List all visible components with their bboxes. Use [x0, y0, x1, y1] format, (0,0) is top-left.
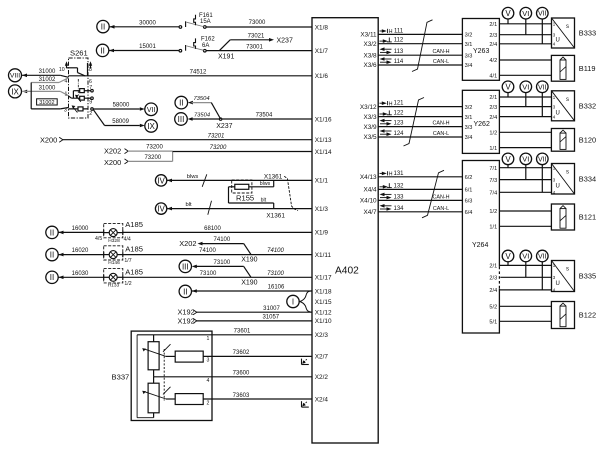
svg-text:A185: A185 — [125, 220, 143, 229]
svg-text:73600: 73600 — [233, 371, 250, 377]
svg-text:X1/1: X1/1 — [315, 178, 329, 185]
wire 73504 to X1/16 — [222, 113, 312, 119]
wire 73000 to X1/8 — [206, 20, 312, 27]
ground symbol at X2/7 — [302, 359, 309, 365]
svg-text:VI: VI — [522, 82, 529, 91]
svg-text:Y263: Y263 — [473, 48, 489, 55]
wire 58009 to IX — [93, 109, 145, 127]
wire 124 CAN-L group 2 — [378, 129, 462, 137]
svg-text:2/4: 2/4 — [489, 42, 497, 48]
node II (circle) row X1/18 — [179, 285, 197, 297]
wire blt branch to R155 — [229, 187, 274, 209]
svg-text:7/1: 7/1 — [489, 166, 497, 172]
B337 resistor lower — [166, 394, 203, 405]
wires Y to probe B121 — [499, 211, 551, 226]
svg-text:X1/8: X1/8 — [315, 24, 329, 31]
wire 31000 to VIII — [22, 69, 69, 77]
svg-text:U: U — [556, 38, 560, 44]
svg-text:X1361: X1361 — [266, 212, 285, 219]
B337 internal bus — [137, 335, 154, 418]
svg-text:X2/7: X2/7 — [315, 354, 329, 361]
svg-text:6: 6 — [89, 79, 92, 85]
Y262 right pin labels — [489, 95, 497, 152]
node X200 half-connector lower — [104, 158, 128, 167]
wire 122 group 2 — [378, 110, 462, 116]
cable marker group 3 — [422, 170, 444, 218]
node V VI VII circles group 2 — [502, 81, 548, 93]
resistor R155 element — [235, 184, 249, 189]
node V VI VII circles group 1 — [502, 7, 548, 19]
wire 131 group 3 — [378, 171, 462, 178]
svg-text:73021: 73021 — [248, 33, 265, 39]
svg-text:CAN-H: CAN-H — [432, 121, 449, 127]
svg-text:B119: B119 — [579, 64, 596, 73]
svg-text:VII: VII — [147, 107, 156, 114]
svg-text:X4/10: X4/10 — [360, 198, 377, 205]
svg-text:B334: B334 — [579, 174, 596, 183]
svg-text:X1/13: X1/13 — [315, 137, 332, 144]
svg-text:X1/14: X1/14 — [315, 149, 332, 156]
svg-text:74100: 74100 — [214, 237, 231, 243]
S261 pin 10 with up arrow — [59, 61, 78, 73]
wire Y pin to B334 pin 4 with node stub — [499, 165, 551, 193]
Y262 left pin labels — [465, 105, 473, 141]
svg-text:s: s — [566, 24, 569, 30]
svg-text:73602: 73602 — [233, 350, 250, 356]
svg-text:U: U — [556, 281, 560, 287]
svg-text:73200: 73200 — [210, 145, 227, 151]
svg-text:CAN-L: CAN-L — [433, 131, 449, 137]
svg-text:31000: 31000 — [39, 69, 56, 75]
node VII (circle) — [145, 103, 158, 116]
fuse F161 15A — [179, 13, 213, 29]
S261 switch blade — [78, 73, 86, 76]
wire junction bracket — [172, 151, 174, 161]
svg-text:CAN-H: CAN-H — [432, 49, 449, 55]
node V VI VII circles group 4 — [502, 250, 548, 262]
node X192 half-connector upper — [178, 308, 197, 317]
svg-text:2/4: 2/4 — [489, 115, 497, 121]
S261 mechanical link dash-dot — [77, 79, 79, 96]
svg-text:31002: 31002 — [39, 77, 56, 83]
connector X1361 cable marker — [284, 176, 298, 210]
svg-text:X202: X202 — [104, 147, 121, 156]
svg-text:A185: A185 — [125, 244, 143, 253]
svg-text:X200: X200 — [104, 158, 121, 167]
svg-text:H: H — [389, 172, 393, 178]
wire 112 group 1 — [378, 38, 462, 44]
svg-text:132: 132 — [393, 183, 404, 189]
svg-text:4/1: 4/1 — [489, 74, 497, 80]
svg-text:IX: IX — [11, 87, 19, 96]
svg-text:73200: 73200 — [144, 155, 161, 161]
svg-text:2/4: 2/4 — [489, 288, 497, 294]
svg-text:5/1: 5/1 — [489, 320, 497, 326]
svg-text:X3/9: X3/9 — [363, 124, 377, 131]
svg-text:II: II — [50, 228, 54, 237]
svg-text:58000: 58000 — [113, 103, 130, 109]
wire blt to X1/3 — [167, 202, 312, 208]
wire blws to X1/1 — [167, 174, 312, 180]
wire 73201 to X1/13 — [63, 133, 312, 139]
svg-text:2: 2 — [89, 111, 92, 117]
svg-text:V: V — [505, 9, 511, 18]
svg-text:V: V — [505, 252, 511, 261]
node VIII (circle) — [9, 69, 28, 82]
wire Y pin to B334 pin 1 with node stub — [499, 165, 551, 168]
svg-text:8: 8 — [89, 67, 92, 73]
svg-text:X3/8: X3/8 — [363, 52, 377, 59]
wire 73200 to X1/14 — [173, 145, 312, 151]
wire slash marker lower — [208, 201, 212, 215]
A402 left pin labels — [315, 24, 332, 403]
svg-text:1/7: 1/7 — [124, 258, 131, 264]
svg-text:II: II — [179, 98, 183, 107]
svg-text:A402: A402 — [335, 266, 359, 277]
svg-text:3/1: 3/1 — [465, 42, 473, 48]
svg-text:Y262: Y262 — [474, 121, 490, 128]
svg-text:3/4: 3/4 — [465, 135, 473, 141]
wire 16106 to X1/18 — [192, 285, 312, 291]
B337 wiper link dash — [163, 349, 165, 401]
svg-text:73100: 73100 — [200, 271, 217, 277]
svg-text:X3/5: X3/5 — [363, 134, 377, 141]
svg-text:blt: blt — [261, 198, 267, 204]
wire 73504 segment to III — [191, 113, 219, 119]
wire 30000 — [110, 20, 180, 27]
svg-text:F162: F162 — [201, 37, 215, 43]
svg-text:V: V — [505, 83, 511, 92]
svg-text:X2/3: X2/3 — [315, 332, 329, 339]
svg-text:73200: 73200 — [146, 145, 163, 151]
svg-text:B335: B335 — [579, 272, 596, 281]
svg-text:16030: 16030 — [72, 271, 89, 277]
svg-text:CAN-L: CAN-L — [433, 206, 449, 212]
svg-text:16106: 16106 — [268, 285, 285, 291]
wire Y pin to B333 pin 4 with node stub — [499, 19, 551, 44]
node II (circle) branch 73504 — [175, 96, 193, 109]
wire Y pin to B335 pin 3 with node stub — [499, 262, 551, 278]
ground symbol at X2/4 — [302, 401, 309, 407]
wire 16030 — [59, 271, 104, 277]
svg-text:A185: A185 — [125, 267, 143, 276]
svg-text:s: s — [566, 267, 569, 273]
sensor B334 s/U symbol — [552, 164, 597, 196]
svg-text:CAN-L: CAN-L — [433, 59, 449, 65]
svg-text:F161: F161 — [199, 13, 213, 19]
svg-text:X1/7: X1/7 — [315, 48, 329, 55]
svg-text:VII: VII — [538, 254, 547, 261]
svg-text:1/1: 1/1 — [489, 225, 497, 231]
svg-text:R155: R155 — [236, 194, 254, 203]
svg-text:124: 124 — [393, 131, 404, 137]
wire 111 group 1 — [378, 28, 462, 35]
svg-text:II: II — [50, 273, 54, 282]
svg-text:3/4: 3/4 — [465, 63, 473, 69]
svg-text:VII: VII — [538, 84, 547, 91]
svg-text:6/2: 6/2 — [465, 175, 473, 181]
svg-text:S261: S261 — [70, 49, 88, 58]
node IX (circle) — [9, 85, 28, 98]
svg-text:H328: H328 — [108, 238, 120, 244]
B337 pin 2 wire 73603 to X2/4 — [203, 393, 312, 407]
node X202 arrow branch — [179, 237, 243, 248]
svg-text:VII: VII — [538, 156, 547, 163]
svg-text:2/3: 2/3 — [489, 33, 497, 39]
svg-text:31007: 31007 — [263, 306, 280, 312]
wire Y pin to B333 pin 1 with node stub — [499, 19, 551, 24]
svg-text:3/3: 3/3 — [465, 125, 473, 131]
wire 74512 to X1/6 — [88, 69, 312, 76]
svg-text:VIII: VIII — [10, 73, 20, 80]
svg-text:s: s — [566, 170, 569, 176]
svg-text:X191: X191 — [218, 54, 234, 61]
node IV (circle) blws — [155, 175, 172, 186]
svg-text:VII: VII — [538, 11, 547, 18]
svg-text:VI: VI — [522, 155, 529, 164]
svg-text:112: 112 — [394, 38, 404, 44]
sensor B335 s/U symbol — [552, 261, 597, 293]
svg-text:X202: X202 — [179, 239, 196, 248]
wire 113 CAN-H group 1 — [378, 47, 462, 55]
svg-text:3/1: 3/1 — [465, 115, 473, 121]
svg-text:74512: 74512 — [190, 69, 207, 75]
svg-text:15001: 15001 — [139, 44, 156, 50]
svg-text:73100: 73100 — [267, 271, 284, 277]
B337 pin 3 wire 73602 to X2/7 — [203, 350, 312, 363]
B337 resistor upper — [166, 351, 203, 362]
node X190 junction upper — [241, 244, 257, 264]
wire 16000 — [59, 226, 104, 232]
svg-text:B332: B332 — [579, 101, 596, 110]
svg-text:Y264: Y264 — [472, 242, 488, 249]
node X202 half-connector — [104, 147, 128, 156]
svg-text:X200: X200 — [40, 135, 57, 144]
svg-text:73504: 73504 — [194, 113, 210, 119]
svg-text:IX: IX — [147, 122, 155, 131]
svg-text:123: 123 — [393, 121, 404, 127]
wire slash marker upper — [202, 174, 207, 187]
wires Y to probe B119 — [499, 60, 551, 75]
svg-text:X1/18: X1/18 — [315, 288, 332, 295]
valve block Y263 box — [462, 19, 499, 81]
S261 internal row to pin 6 — [69, 76, 93, 85]
Y263 left pin labels — [465, 33, 473, 70]
wire 73200 gray from X202 — [128, 145, 173, 151]
svg-text:X1/16: X1/16 — [315, 116, 332, 123]
svg-text:7/4: 7/4 — [489, 191, 497, 197]
wire 133 CAN-H group 3 — [378, 193, 462, 201]
svg-text:3/2: 3/2 — [465, 33, 473, 39]
svg-text:58009: 58009 — [112, 119, 129, 125]
potentiometer B337 lower — [142, 377, 170, 418]
svg-text:2/1: 2/1 — [489, 264, 497, 270]
svg-text:X1/3: X1/3 — [315, 206, 329, 213]
svg-text:blws: blws — [260, 181, 271, 187]
svg-text:X3/12: X3/12 — [360, 104, 377, 111]
svg-text:blws: blws — [187, 174, 199, 180]
S261 resistor element upper (pins 1-7) — [69, 85, 94, 105]
svg-text:6A: 6A — [202, 43, 209, 49]
node X237 junction — [216, 118, 232, 130]
wire 121 group 2 — [378, 101, 462, 108]
svg-text:VI: VI — [522, 252, 529, 261]
svg-text:16020: 16020 — [72, 248, 89, 254]
wire 73504 gray segment to II — [192, 96, 212, 102]
resistor R155 dashed box — [232, 180, 254, 203]
wire 16020 — [59, 248, 104, 254]
svg-text:II: II — [183, 287, 187, 296]
wire 68100 to X1/9 — [123, 226, 312, 232]
svg-text:CAN-H: CAN-H — [432, 194, 449, 200]
svg-text:2/3: 2/3 — [489, 105, 497, 111]
svg-text:114: 114 — [394, 59, 404, 65]
wire 31002 boxed label to S261 pin 3 — [31, 83, 68, 109]
svg-text:X237: X237 — [277, 37, 293, 44]
sensor B333 s/U symbol — [552, 18, 597, 48]
svg-text:1/2: 1/2 — [489, 209, 497, 215]
lamp A185 H133 — [104, 267, 143, 288]
Y264 left pin labels — [465, 175, 473, 216]
svg-text:B122: B122 — [579, 311, 596, 320]
svg-text:III: III — [178, 115, 185, 124]
wire 134 CAN-L group 3 — [378, 204, 462, 212]
svg-text:73504: 73504 — [256, 113, 273, 119]
svg-text:B120: B120 — [579, 135, 596, 144]
svg-text:VI: VI — [522, 9, 529, 18]
svg-text:X190: X190 — [241, 279, 257, 286]
node II (circle) row X1/9 — [46, 226, 64, 238]
svg-text:2/1: 2/1 — [489, 22, 497, 28]
svg-text:X192: X192 — [178, 317, 195, 326]
svg-text:9: 9 — [89, 100, 92, 106]
node II (circle) feed 15001 row X1/7 — [96, 44, 114, 56]
svg-text:X1/12: X1/12 — [315, 310, 332, 317]
node II (circle) row X1/17 — [46, 271, 64, 283]
svg-text:6/4: 6/4 — [465, 210, 473, 216]
wire diagonal to node X237 — [211, 103, 220, 119]
svg-text:X3/6: X3/6 — [363, 62, 377, 69]
svg-text:113: 113 — [394, 49, 404, 55]
wire 73001 to X1/7 — [206, 44, 312, 50]
Y264 dashed edge segment — [498, 267, 500, 289]
svg-text:15A: 15A — [200, 19, 211, 25]
node I (circle) with brace to X1/18 X1/15 X1/12 — [287, 291, 312, 312]
svg-text:6/1: 6/1 — [465, 188, 473, 194]
S261 resistor element lower (pins 3-2) — [69, 105, 94, 117]
wire 73021 to X237 — [230, 33, 293, 44]
svg-text:X3/2: X3/2 — [363, 41, 377, 48]
wire 15001 — [109, 44, 179, 51]
wires Y to probe B122 — [499, 306, 551, 321]
wire 114 CAN-L group 1 — [378, 57, 462, 65]
A402 pins X3/12-X3/5 labels group 2 — [360, 104, 377, 141]
wire 74100 to X1/11 — [123, 248, 312, 254]
svg-text:121: 121 — [393, 101, 404, 107]
svg-text:X1/9: X1/9 — [315, 230, 329, 237]
valve block Y262 box — [462, 90, 499, 153]
svg-text:B337: B337 — [112, 373, 130, 382]
svg-text:X192: X192 — [178, 308, 195, 317]
lamp A185 H328 — [95, 220, 143, 244]
A402 pins X3/11-X3/6 labels group 1 — [360, 32, 377, 70]
svg-text:3: 3 — [207, 358, 210, 364]
svg-text:X1361: X1361 — [264, 173, 283, 180]
node III (circle) branch 73100 — [179, 260, 244, 273]
wire Y pin to B332 pin 1 with node stub — [499, 93, 551, 97]
svg-text:134: 134 — [393, 206, 404, 212]
svg-text:3: 3 — [64, 108, 67, 114]
wire 73100 to X1/17 — [123, 271, 312, 277]
svg-text:X1/11: X1/11 — [315, 252, 332, 259]
svg-text:X237: X237 — [216, 123, 232, 130]
svg-text:X4/7: X4/7 — [363, 209, 377, 216]
node II (circle) row X1/11 — [46, 248, 64, 260]
svg-text:10: 10 — [59, 67, 65, 73]
sensor B119 probe symbol — [551, 55, 595, 81]
node X192 half-connector lower — [178, 317, 197, 326]
svg-text:III: III — [182, 262, 189, 271]
svg-text:73201: 73201 — [208, 133, 225, 139]
B337 pin 1 wire 73601 to X2/3 — [137, 329, 312, 342]
sender B337 box — [112, 331, 212, 420]
node IV (circle) blt — [155, 203, 172, 214]
node IX (circle) lower — [145, 120, 158, 133]
wire blws branch to R155 — [249, 180, 274, 187]
node III (circle) branch 73504 — [175, 113, 193, 126]
svg-text:74100: 74100 — [199, 248, 216, 254]
svg-text:X190: X190 — [241, 257, 257, 264]
svg-text:IV: IV — [157, 204, 165, 213]
svg-text:5/2: 5/2 — [489, 305, 497, 311]
lamp A185 H146 — [104, 244, 143, 265]
svg-text:1: 1 — [65, 91, 68, 97]
svg-text:V: V — [505, 155, 511, 164]
svg-text:2/3: 2/3 — [489, 276, 497, 282]
wire 58000 to VII — [93, 103, 145, 111]
svg-text:B333: B333 — [579, 29, 596, 38]
svg-text:II: II — [101, 22, 105, 31]
wires Y to probe B120 — [499, 132, 551, 147]
sensor B122 probe symbol — [551, 302, 596, 329]
sensor B332 s/U symbol — [552, 91, 597, 121]
svg-text:X1/10: X1/10 — [315, 318, 332, 325]
svg-text:68100: 68100 — [204, 226, 221, 232]
svg-text:4/2: 4/2 — [489, 58, 497, 64]
svg-text:73504: 73504 — [193, 96, 209, 102]
svg-text:4/4: 4/4 — [124, 236, 131, 242]
svg-text:U: U — [556, 110, 560, 116]
svg-text:131: 131 — [393, 171, 404, 177]
svg-text:74100: 74100 — [267, 248, 284, 254]
svg-text:73000: 73000 — [249, 20, 266, 26]
svg-text:X4/4: X4/4 — [363, 187, 377, 194]
svg-text:30000: 30000 — [139, 20, 156, 26]
svg-text:H146: H146 — [108, 260, 120, 266]
valve block Y264 box — [462, 161, 499, 334]
svg-text:H133: H133 — [108, 283, 120, 289]
sensor B121 probe symbol — [551, 204, 596, 230]
svg-text:73601: 73601 — [234, 329, 251, 335]
svg-text:4: 4 — [207, 378, 210, 384]
svg-text:B121: B121 — [579, 213, 596, 222]
wire Y pin to B332 pin 3 with node stub — [499, 93, 551, 107]
ECU A402 box — [312, 18, 378, 443]
svg-text:31057: 31057 — [262, 315, 279, 321]
B337 pin 4 wire 73600 to X2/2 — [154, 371, 312, 384]
switch S261 dashed enclosure — [69, 58, 89, 118]
svg-text:73100: 73100 — [214, 260, 231, 266]
